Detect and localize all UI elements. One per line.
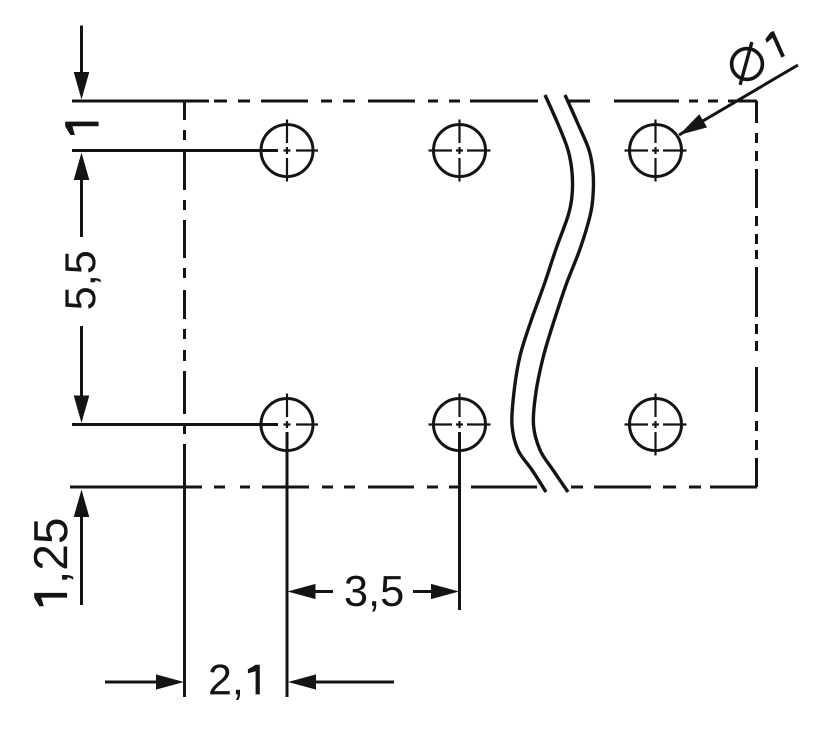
leader line for diameter callout <box>679 65 798 135</box>
hole H4 centerlines <box>284 394 319 429</box>
diameter symbol slash of Ø <box>740 42 752 85</box>
dimension 3,5: left shaft <box>313 590 333 593</box>
hole H1 centerlines <box>284 120 319 182</box>
dimension 5,5 / 1,25: down arrowhead at row2 line <box>74 396 90 424</box>
dimension 1: upper arrow shaft <box>80 26 83 79</box>
hole H5 circle (row2 col2) <box>434 399 486 451</box>
outline top edge (phantom dash-dot line) <box>72 100 757 103</box>
outline right edge (phantom dash-dot line) <box>755 101 758 487</box>
dimension 1: upper arrowhead (down) <box>74 72 90 100</box>
dimension 3,5: left arrowhead <box>288 584 316 599</box>
hole H3 circle (row1 col3) <box>630 125 682 177</box>
dimension 1,25: lower shaft <box>80 515 83 605</box>
dimension text 1 <box>65 122 98 135</box>
hole H3 centerlines <box>625 120 687 182</box>
dimension 2,1: right shaft <box>314 681 394 684</box>
hole H4 circle (row2 col1) <box>261 399 313 451</box>
dimension 2,1: left arrowhead (right pointing) <box>156 674 184 689</box>
dimension 3,5: right shaft <box>413 590 432 593</box>
dimension 1,25: up arrowhead at bottom edge <box>74 490 90 518</box>
dimension 2,1: right arrowhead (left pointing) <box>288 674 316 689</box>
hole H2 circle (row1 col2) <box>434 125 486 177</box>
leader arrowhead at hole H3 edge <box>679 114 707 135</box>
extension line below outline left edge (x=184.5) <box>183 487 186 697</box>
hole H5 centerlines <box>429 394 491 429</box>
dimension 5,5: lower shaft <box>80 326 83 398</box>
outline left edge (dash-dot line) <box>183 101 186 487</box>
dimension 5,5: upper shaft <box>80 178 83 237</box>
extension line below hole H5 (x=459.5) <box>458 432 461 610</box>
extension line row2 holes centre (y=424.5) <box>72 423 278 426</box>
break line right curve <box>533 95 593 492</box>
dimension text 5,5 <box>65 252 100 309</box>
extension line below hole H4 (x=287) <box>286 432 289 697</box>
extension line row1 holes centre (y=150.5) <box>72 149 278 152</box>
outline bottom edge (phantom dash-dot line) <box>70 486 757 489</box>
dimension 3,5: right arrowhead <box>431 584 459 599</box>
hole H6 circle (row2 col3) <box>630 399 682 451</box>
diameter text 1 <box>765 31 785 58</box>
dimension text 2,1 <box>210 664 260 700</box>
dimension 5,5 / 1: up arrowhead at row1 line <box>74 153 90 181</box>
dimension text 1,25 <box>34 519 74 606</box>
dimension 2,1: left shaft <box>105 681 158 684</box>
hole H6 centerlines <box>625 394 687 456</box>
diameter symbol circle of Ø <box>732 49 763 80</box>
dimension text 3,5 <box>346 576 403 612</box>
hole H1 circle (row1 col1) <box>261 125 313 177</box>
hole H2 centerlines <box>429 120 491 182</box>
break line left curve <box>512 95 573 492</box>
